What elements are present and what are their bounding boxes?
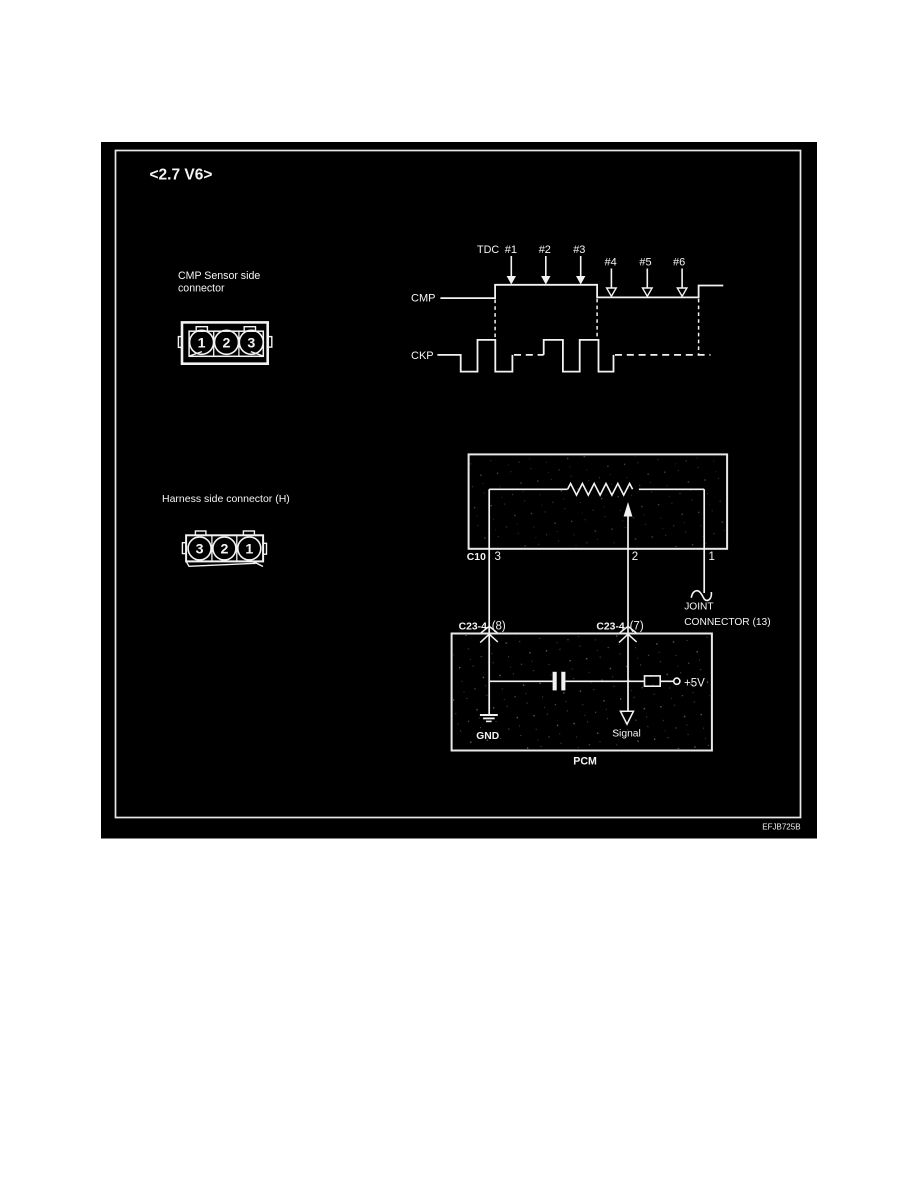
connector J1 side tab right [268, 337, 272, 348]
connector H pin circle 1 [238, 537, 261, 560]
svg-text:connector: connector [178, 282, 225, 294]
PCM entry chevrons pin 8 [480, 626, 498, 642]
svg-text:PCM: PCM [573, 756, 597, 768]
svg-text:JOINT: JOINT [684, 601, 713, 612]
wire: pin 3 vertical down to PCM [488, 489, 490, 633]
connector H pin numbers [196, 542, 254, 558]
connector J1 bottom keying flaps [189, 352, 263, 356]
connector J1 inner cavity [189, 331, 263, 356]
connector H top tab left [195, 531, 206, 535]
+5V terminal circle [674, 678, 680, 684]
label: CMP Sensor side connector [178, 270, 260, 294]
TDC arrow #1 (filled) [507, 256, 516, 285]
wire: pin 2 vertical (signal) with up arrow [624, 502, 633, 634]
connector J1 cavity dividers [214, 331, 239, 356]
svg-text:C10: C10 [467, 552, 486, 563]
svg-text:#4: #4 [605, 257, 617, 269]
svg-text:CONNECTOR (13): CONNECTOR (13) [684, 617, 770, 628]
signal output open triangle [620, 711, 633, 724]
TDC arrow #4 (open) [607, 269, 617, 297]
CKP waveform dashed segments [514, 354, 711, 356]
connector H top tab right [243, 531, 254, 535]
svg-text:1: 1 [709, 551, 715, 563]
TDC arrow #5 (open) [643, 269, 653, 297]
wire: horizontal +5V feed [489, 680, 673, 682]
svg-text:#3: #3 [573, 244, 585, 256]
TDC arrow #2 (filled) [541, 256, 550, 285]
connector J1 top tab left [196, 327, 207, 332]
connector H cavity dividers [212, 536, 237, 561]
svg-text:+5V: +5V [684, 678, 705, 690]
svg-text:C23-4: C23-4 [596, 622, 625, 633]
ground symbol [480, 715, 498, 721]
connector H side tab right [263, 543, 266, 554]
wire: GND vertical inside PCM [488, 634, 490, 715]
sensor box speckle texture [470, 456, 725, 547]
svg-text:3: 3 [495, 551, 501, 563]
svg-text:CMP Sensor side: CMP Sensor side [178, 270, 260, 282]
connector J1 pin circle 3 [239, 330, 263, 354]
connector J1 side tab left [178, 337, 182, 348]
label C23-4 (8) [459, 621, 506, 633]
svg-text:CMP: CMP [411, 293, 435, 305]
black diagram panel background [101, 142, 817, 839]
svg-text:#6: #6 [673, 257, 685, 269]
capacitor C (two plates) [553, 672, 566, 691]
svg-text:TDC: TDC [477, 244, 499, 256]
joint connector break symbol [691, 591, 711, 601]
svg-text:1: 1 [198, 336, 206, 352]
svg-text:#1: #1 [505, 244, 517, 256]
svg-text:GND: GND [476, 731, 499, 742]
svg-text:1: 1 [245, 542, 253, 558]
PCM box [452, 634, 712, 751]
CKP waveform trace solid segments [437, 340, 613, 372]
connector H bottom keying flaps [186, 562, 263, 567]
TDC arrow #6 (open) [677, 269, 687, 297]
svg-text:Signal: Signal [612, 728, 641, 739]
CMP-CKP dashed sync line 1 [494, 300, 496, 340]
label C10 and pin numbers 3 2 1 [467, 551, 715, 563]
connector J1 outer housing [182, 322, 268, 363]
connector H side tab left [182, 543, 186, 554]
TDC arrow #3 (filled) [576, 256, 585, 285]
CMP waveform trace [440, 285, 723, 298]
svg-text:2: 2 [632, 551, 638, 563]
connector J1 pin circle 2 [215, 330, 239, 354]
waveform labels TDC #1-#6 [477, 244, 685, 269]
svg-text:EFJB725B: EFJB725B [762, 822, 800, 831]
resistor block (pull-up) [645, 676, 661, 686]
inner white border frame [116, 151, 801, 818]
svg-text:#2: #2 [539, 244, 551, 256]
svg-text:2: 2 [220, 542, 228, 558]
connector H pin circle 3 [188, 537, 211, 560]
harness side connector H [182, 531, 266, 567]
wire: resistor to pin 1 [639, 488, 704, 490]
wire: pin 1 vertical down to joint connector [703, 489, 705, 593]
CMP sensor internal box [469, 454, 727, 548]
svg-text:#5: #5 [639, 257, 651, 269]
svg-text:3: 3 [247, 336, 255, 352]
PCM entry chevrons pin 7 [619, 626, 637, 642]
wire: pin 3 horizontal to resistor [489, 488, 567, 490]
CMP-CKP dashed sync line 3 [698, 299, 700, 356]
label JOINT CONNECTOR (13) [684, 601, 770, 628]
svg-text:CKP: CKP [411, 350, 434, 362]
svg-text:(7): (7) [630, 621, 644, 633]
svg-text:2: 2 [223, 336, 231, 352]
PCM box speckle texture [453, 635, 710, 749]
label C23-4 (7) [596, 621, 643, 633]
connector H housing [186, 535, 263, 561]
connector J1 pin numbers [198, 336, 256, 352]
connector J1 top tab right [244, 327, 255, 332]
CMP-CKP dashed sync line 2 [596, 299, 598, 340]
connector J1 pin circle 1 [190, 330, 214, 354]
CMP sensor side connector J1 [178, 322, 271, 363]
svg-text:<2.7 V6>: <2.7 V6> [150, 167, 213, 184]
connector H pin circle 2 [213, 537, 236, 560]
wire: Signal vertical inside PCM [627, 634, 629, 712]
svg-text:Harness side connector (H): Harness side connector (H) [162, 493, 290, 505]
svg-text:3: 3 [196, 542, 204, 558]
resistor R (zigzag) [568, 484, 633, 496]
